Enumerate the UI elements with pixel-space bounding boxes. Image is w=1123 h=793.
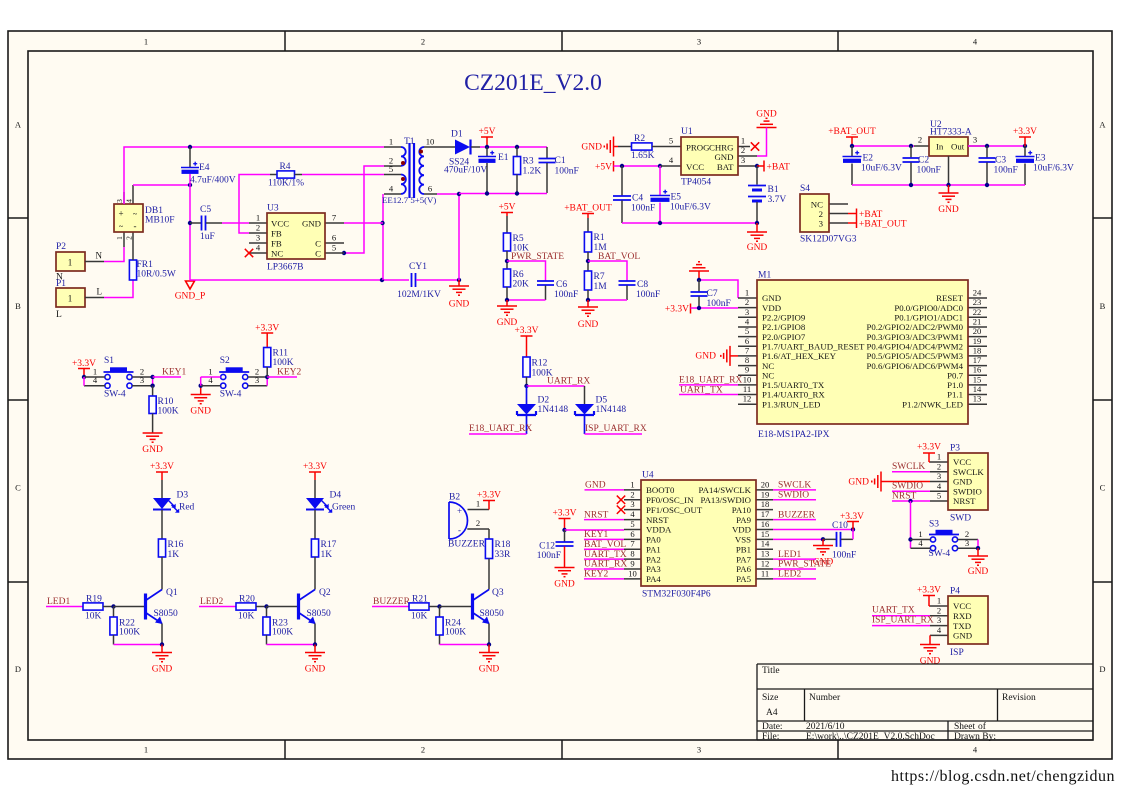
wire VDDA to U4	[565, 529, 625, 531]
resistor R11	[264, 348, 271, 368]
svg-text:SWCLK: SWCLK	[953, 467, 984, 477]
svg-text:ISP: ISP	[950, 648, 964, 658]
svg-text:14: 14	[973, 384, 982, 394]
svg-text:C8: C8	[637, 280, 648, 290]
svg-text:100nF: 100nF	[554, 290, 578, 300]
wire DC+ rail	[124, 147, 384, 204]
LED D3	[153, 498, 171, 509]
svg-text:6: 6	[630, 529, 635, 539]
svg-text:~: ~	[119, 222, 124, 231]
svg-text:2: 2	[937, 605, 941, 615]
svg-text:D: D	[1099, 664, 1105, 674]
svg-text:R3: R3	[523, 157, 534, 167]
svg-text:PA0: PA0	[646, 535, 661, 545]
svg-text:TXD: TXD	[953, 621, 971, 631]
svg-text:PA1: PA1	[646, 544, 661, 554]
svg-text:3: 3	[140, 375, 144, 385]
svg-text:6: 6	[428, 184, 433, 194]
svg-text:M1: M1	[758, 271, 771, 281]
fuse resistor FR1	[129, 260, 136, 280]
svg-text:VDD: VDD	[732, 525, 751, 535]
svg-text:3: 3	[741, 155, 745, 165]
svg-text:+BAT_OUT: +BAT_OUT	[828, 127, 876, 137]
svg-text:10uF/6.3V: 10uF/6.3V	[1033, 164, 1074, 174]
svg-text:1: 1	[68, 294, 73, 304]
svg-text:GND: GND	[302, 219, 321, 229]
svg-text:Q3: Q3	[492, 588, 504, 598]
svg-text:R7: R7	[594, 272, 605, 282]
svg-text:P1.6/AT_HEX_KEY: P1.6/AT_HEX_KEY	[762, 351, 837, 361]
svg-text:Red: Red	[179, 503, 195, 513]
svg-text:UART_RX: UART_RX	[584, 560, 627, 570]
svg-text:18: 18	[973, 345, 982, 355]
svg-text:+5V: +5V	[595, 163, 612, 173]
svg-text:P1.0: P1.0	[947, 380, 963, 390]
svg-text:3: 3	[697, 37, 701, 47]
wire to C6	[507, 261, 546, 281]
svg-text:P1.2/NWK_LED: P1.2/NWK_LED	[902, 399, 963, 409]
svg-text:6: 6	[332, 233, 337, 243]
svg-text:-: -	[458, 525, 461, 535]
resistor R23	[266, 607, 268, 618]
power flag +BAT at S4	[848, 213, 856, 215]
junction base node	[111, 604, 115, 608]
svg-text:11: 11	[761, 568, 769, 578]
svg-text:10K: 10K	[411, 612, 428, 622]
svg-text:R6: R6	[513, 270, 524, 280]
svg-text:100nF: 100nF	[631, 204, 655, 214]
wire charger ground rail	[622, 222, 757, 224]
ground above C7 (inverted)	[689, 270, 709, 272]
svg-text:NRST: NRST	[646, 515, 669, 525]
svg-text:Q2: Q2	[319, 588, 331, 598]
svg-text:NC: NC	[762, 361, 774, 371]
resistor R24	[439, 607, 441, 618]
svg-text:P0.4/GPIO4/ADC4/PWM2: P0.4/GPIO4/ADC4/PWM2	[866, 342, 963, 352]
svg-text:9: 9	[630, 559, 634, 569]
diode D2 1N4148	[526, 386, 528, 404]
svg-text:20K: 20K	[513, 280, 530, 290]
ground GND at Q stage	[161, 645, 163, 653]
svg-text:10: 10	[743, 374, 752, 384]
svg-text:SWCLK: SWCLK	[778, 481, 811, 491]
svg-text:R4: R4	[279, 162, 290, 172]
resistor R2	[618, 146, 632, 148]
svg-text:3: 3	[937, 615, 941, 625]
svg-text:R1: R1	[594, 233, 605, 243]
svg-text:EE12.7 5+5(V): EE12.7 5+5(V)	[382, 195, 436, 205]
no-connect cross U4 pin3	[617, 505, 625, 513]
svg-text:+3.3V: +3.3V	[150, 462, 174, 472]
svg-text:1: 1	[144, 745, 148, 755]
svg-text:Number: Number	[809, 693, 841, 703]
svg-text:3: 3	[745, 307, 749, 317]
ic U1 TP4054	[666, 146, 681, 148]
wire NRST to S3	[910, 501, 912, 548]
svg-text:5: 5	[389, 164, 393, 174]
svg-text:UART_RX: UART_RX	[547, 377, 590, 387]
wire C6 bottom	[507, 299, 546, 301]
resistor R17	[311, 539, 318, 557]
transistor Q	[471, 594, 474, 620]
svg-text:D5: D5	[596, 396, 608, 406]
svg-text:SW-4: SW-4	[104, 390, 126, 400]
svg-text:P4: P4	[950, 587, 960, 597]
svg-text:4: 4	[93, 375, 98, 385]
svg-text:ISP_UART_RX: ISP_UART_RX	[872, 616, 934, 626]
svg-text:21: 21	[973, 317, 982, 327]
svg-text:3: 3	[255, 375, 259, 385]
power flag +5V	[486, 137, 488, 147]
svg-text:of: of	[978, 721, 987, 732]
svg-text:Revision: Revision	[1002, 693, 1036, 703]
svg-text:KEY2: KEY2	[277, 368, 302, 378]
svg-text:C: C	[15, 483, 21, 493]
svg-text:BAT: BAT	[717, 162, 734, 172]
svg-text:4: 4	[918, 538, 923, 548]
svg-text:100nF: 100nF	[917, 166, 941, 176]
power flag +BAT_OUT at S4	[848, 222, 856, 224]
svg-text:P1: P1	[56, 279, 66, 289]
svg-text:GND: GND	[953, 631, 972, 641]
svg-text:1: 1	[256, 213, 260, 223]
ground GND at R7	[587, 300, 589, 307]
svg-text:SW-4: SW-4	[220, 390, 242, 400]
LED D4	[306, 498, 324, 509]
svg-text:+BAT_OUT: +BAT_OUT	[564, 204, 612, 214]
svg-text:SWCLK: SWCLK	[892, 462, 925, 472]
wire LED2 to R	[199, 606, 236, 608]
svg-text:L: L	[97, 287, 103, 297]
svg-text:8: 8	[630, 549, 634, 559]
svg-text:BUZZER: BUZZER	[448, 540, 486, 550]
svg-text:VCC: VCC	[953, 457, 971, 467]
svg-text:R20: R20	[239, 595, 255, 605]
svg-text:GND: GND	[578, 320, 599, 330]
svg-text:R2: R2	[634, 134, 645, 144]
svg-text:10uF/6.3V: 10uF/6.3V	[670, 203, 711, 213]
svg-text:R12: R12	[532, 359, 548, 369]
svg-text:GND: GND	[938, 205, 959, 215]
svg-text:ISP_UART_RX: ISP_UART_RX	[585, 424, 647, 434]
svg-text:+: +	[118, 209, 123, 219]
svg-text:100K: 100K	[272, 628, 293, 638]
svg-text:1N4148: 1N4148	[538, 405, 569, 415]
svg-text:100nF: 100nF	[994, 166, 1018, 176]
svg-text:1: 1	[68, 258, 73, 268]
svg-text:19: 19	[761, 489, 770, 499]
svg-text:NC: NC	[271, 249, 283, 259]
svg-text:C3: C3	[995, 156, 1006, 166]
diode D5 1N4148	[575, 404, 594, 415]
svg-text:7: 7	[332, 213, 337, 223]
svg-text:4: 4	[256, 243, 261, 253]
svg-text:2: 2	[745, 297, 749, 307]
wire +5V to U1 VCC	[614, 165, 661, 167]
resistor R21	[409, 603, 429, 610]
wire primary ground rail	[190, 279, 409, 281]
svg-text:CY1: CY1	[409, 262, 427, 272]
svg-text:GND: GND	[190, 407, 211, 417]
capacitor C6	[537, 280, 554, 282]
wire C7 top to M1 pin1	[699, 280, 738, 298]
bridge rectifier DB1	[123, 192, 125, 204]
capacitor E3	[1024, 146, 1026, 156]
svg-text:5: 5	[745, 326, 749, 336]
svg-text:P0.1/GPIO1/ADC1: P0.1/GPIO1/ADC1	[894, 313, 963, 323]
resistor R19	[83, 603, 103, 610]
svg-text:P1.4/UART0_RX: P1.4/UART0_RX	[762, 390, 825, 400]
svg-text:1: 1	[144, 37, 148, 47]
svg-text:15: 15	[761, 529, 770, 539]
mcu U4 STM32F030F4P6	[624, 489, 641, 491]
svg-text:~: ~	[133, 210, 138, 219]
svg-text:BOOT0: BOOT0	[646, 485, 675, 495]
wire +5V rail	[480, 146, 547, 148]
resistor R12	[523, 357, 530, 377]
wire emitter to ground rail	[440, 644, 490, 646]
svg-text:C6: C6	[556, 280, 567, 290]
svg-text:C: C	[1100, 483, 1106, 493]
svg-text:20: 20	[761, 479, 770, 489]
svg-text:PA3: PA3	[646, 564, 661, 574]
svg-text:Size: Size	[762, 693, 778, 703]
svg-text:1: 1	[745, 288, 749, 298]
svg-text:5: 5	[332, 243, 336, 253]
junction C5 node	[188, 221, 192, 225]
svg-text:LED2: LED2	[778, 570, 801, 580]
connector P1	[56, 288, 85, 307]
polarity dots T1	[401, 161, 405, 165]
svg-text:FB: FB	[271, 229, 282, 239]
svg-text:E18-MS1PA2-IPX: E18-MS1PA2-IPX	[758, 430, 830, 440]
svg-text:1: 1	[389, 137, 393, 147]
power flag +3.3V at E3	[1019, 136, 1031, 138]
svg-text:E18_UART_RX: E18_UART_RX	[679, 376, 742, 386]
pin 2 of B2 to R18	[467, 528, 489, 530]
svg-text:4: 4	[937, 625, 942, 635]
svg-text:E18_UART_RX: E18_UART_RX	[469, 424, 532, 434]
wire U2 Out rail	[968, 145, 1025, 147]
svg-text:R19: R19	[86, 595, 102, 605]
ground GND at R6	[506, 300, 508, 306]
svg-text:3: 3	[115, 199, 124, 203]
ground GND at S2	[191, 394, 211, 396]
wire P2 to bridge	[85, 261, 104, 263]
svg-text:1: 1	[741, 136, 745, 146]
capacitor C4	[621, 166, 623, 196]
svg-text:P0.0/GPIO0/ADC0: P0.0/GPIO0/ADC0	[894, 303, 963, 313]
svg-text:https://blog.csdn.net/chengzid: https://blog.csdn.net/chengzidun	[891, 768, 1115, 785]
svg-text:102M/1KV: 102M/1KV	[397, 290, 441, 300]
capacitor C5	[190, 222, 201, 224]
ground GND at S3	[977, 548, 979, 556]
svg-text:PA14/SWCLK: PA14/SWCLK	[699, 485, 752, 495]
svg-text:+3.3V: +3.3V	[552, 509, 576, 519]
svg-text:13: 13	[973, 394, 982, 404]
connector P4 ISP	[930, 605, 948, 607]
svg-text:S8050: S8050	[154, 609, 179, 619]
svg-text:470uF/10V: 470uF/10V	[444, 166, 487, 176]
svg-text:NRST: NRST	[892, 492, 916, 502]
svg-text:+5V: +5V	[479, 127, 496, 137]
svg-text:17: 17	[761, 509, 770, 519]
svg-text:Title: Title	[762, 666, 780, 676]
svg-text:PA6: PA6	[736, 564, 751, 574]
svg-text:12: 12	[761, 559, 770, 569]
svg-text:100nF: 100nF	[832, 551, 856, 561]
svg-text:P3: P3	[950, 444, 960, 454]
wire C5 to U3 VCC	[222, 222, 249, 224]
power flag +5V at R5	[501, 212, 513, 214]
module M1 E18-MS1PA2-IPX	[738, 297, 757, 299]
power flag +BAT_OUT at R1	[582, 213, 594, 215]
svg-text:100nF: 100nF	[636, 290, 660, 300]
svg-text:C1: C1	[555, 156, 566, 166]
svg-text:File:: File:	[762, 732, 779, 742]
svg-text:4: 4	[669, 155, 674, 165]
svg-text:1: 1	[937, 596, 941, 606]
svg-text:11: 11	[743, 384, 751, 394]
svg-text:P2.0/GPIO7: P2.0/GPIO7	[762, 332, 806, 342]
svg-text:U1: U1	[681, 127, 693, 137]
no-connect cross U3 pin4	[245, 249, 253, 257]
svg-text:12: 12	[743, 394, 752, 404]
svg-text:1M: 1M	[594, 282, 608, 292]
svg-text:L: L	[56, 310, 62, 320]
svg-text:Sheet: Sheet	[954, 722, 975, 732]
junction at E4 bottom	[188, 183, 192, 187]
svg-text:9: 9	[745, 365, 749, 375]
capacitor C12	[564, 530, 566, 542]
svg-text:VDD: VDD	[762, 303, 781, 313]
svg-text:P1.1: P1.1	[947, 390, 963, 400]
svg-text:+: +	[457, 506, 462, 516]
svg-text:GND: GND	[585, 481, 606, 491]
svg-text:10uF/6.3V: 10uF/6.3V	[861, 164, 902, 174]
wire LED1 to R	[46, 606, 83, 608]
svg-text:PROG: PROG	[686, 143, 710, 153]
svg-text:VSS: VSS	[735, 535, 751, 545]
power flag +BAT_OUT at E2	[846, 136, 858, 138]
svg-text:100nF: 100nF	[555, 167, 579, 177]
svg-text:SWDIO: SWDIO	[778, 491, 809, 501]
capacitor C8	[619, 280, 636, 282]
svg-text:7: 7	[630, 539, 635, 549]
svg-text:C: C	[315, 249, 321, 259]
capacitor CY1	[411, 273, 413, 287]
svg-text:C10: C10	[832, 521, 848, 531]
svg-text:GND: GND	[152, 665, 173, 675]
ground GND at Q stage	[314, 645, 316, 653]
svg-text:P0.5/GPIO5/ADC5/PWM3: P0.5/GPIO5/ADC5/PWM3	[866, 351, 963, 361]
wire secondary ground rail	[437, 193, 459, 195]
svg-text:PA4: PA4	[646, 574, 661, 584]
svg-text:A: A	[1099, 120, 1106, 130]
svg-text:3.7V: 3.7V	[768, 195, 787, 205]
svg-text:U3: U3	[267, 204, 279, 214]
junction UART_RX node	[524, 384, 528, 388]
svg-text:3: 3	[937, 471, 941, 481]
ground GND at C10	[822, 539, 824, 545]
svg-text:3: 3	[630, 499, 634, 509]
svg-text:GND: GND	[305, 665, 326, 675]
svg-text:19: 19	[973, 336, 982, 346]
svg-text:3: 3	[819, 219, 824, 229]
svg-text:U4: U4	[642, 471, 654, 481]
ground GND at U2	[948, 185, 950, 193]
svg-text:GND: GND	[714, 152, 733, 162]
svg-text:DB1: DB1	[145, 206, 163, 216]
svg-text:SW-4: SW-4	[929, 549, 951, 559]
wire P1 to FR1	[85, 297, 104, 299]
junction base node	[264, 604, 268, 608]
wire +3.3V to M1 pin2	[691, 307, 739, 309]
svg-text:+BAT_OUT: +BAT_OUT	[859, 220, 907, 230]
no-connect cross U4 pin2	[617, 496, 625, 504]
svg-text:E:\work\..\CZ201E_V2.0.SchDoc: E:\work\..\CZ201E_V2.0.SchDoc	[806, 732, 935, 742]
svg-text:B: B	[15, 301, 21, 311]
svg-text:3: 3	[965, 538, 969, 548]
svg-text:B2: B2	[449, 493, 460, 503]
svg-text:3: 3	[256, 233, 260, 243]
junction VDDA node	[562, 528, 566, 532]
svg-text:P0.2/GPIO2/ADC2/PWM0: P0.2/GPIO2/ADC2/PWM0	[866, 322, 963, 332]
svg-text:CHRG: CHRG	[709, 143, 734, 153]
svg-text:4.7uF/400V: 4.7uF/400V	[190, 176, 236, 186]
svg-text:PA7: PA7	[736, 554, 751, 564]
svg-text:3: 3	[973, 135, 977, 145]
wire CY1 to GND	[416, 279, 459, 281]
junction BAT_VOL node	[586, 259, 590, 263]
svg-text:2: 2	[937, 461, 941, 471]
svg-text:GND: GND	[762, 293, 781, 303]
svg-text:4: 4	[937, 481, 942, 491]
wire BUZZER to R	[372, 606, 409, 608]
svg-text:SWDIO: SWDIO	[953, 486, 982, 496]
svg-text:P1.3/RUN_LED: P1.3/RUN_LED	[762, 399, 820, 409]
capacitor E5	[659, 166, 661, 196]
svg-text:In: In	[936, 142, 944, 152]
power flag +3.3V at R12	[521, 335, 533, 337]
svg-text:-: -	[134, 221, 137, 231]
wire +BAT_OUT to U2 In	[852, 145, 914, 147]
svg-text:NRST: NRST	[953, 496, 976, 506]
title block frame	[757, 664, 1093, 740]
capacitor C10	[836, 532, 838, 547]
svg-text:1: 1	[115, 236, 124, 240]
svg-text:S3: S3	[929, 520, 939, 530]
wire C8 bottom	[588, 299, 627, 301]
ground GND at CY1	[458, 280, 460, 286]
svg-text:S1: S1	[104, 356, 114, 366]
resistor R4	[270, 174, 277, 176]
wire U3 FB to R4	[239, 175, 270, 234]
svg-text:GND_P: GND_P	[175, 292, 206, 302]
svg-text:GND: GND	[747, 243, 768, 253]
border row ticks	[8, 217, 28, 219]
svg-text:VDDA: VDDA	[646, 525, 672, 535]
svg-text:14: 14	[761, 539, 770, 549]
svg-text:PF1/OSC_OUT: PF1/OSC_OUT	[646, 505, 703, 515]
pin 1 of B2 to +3.3V	[468, 509, 490, 511]
svg-text:MB10F: MB10F	[145, 216, 175, 226]
svg-text:P2: P2	[56, 242, 66, 252]
capacitor E1	[486, 147, 488, 156]
svg-text:5: 5	[669, 136, 673, 146]
svg-text:BUZZER: BUZZER	[373, 597, 411, 607]
svg-text:7: 7	[745, 345, 750, 355]
